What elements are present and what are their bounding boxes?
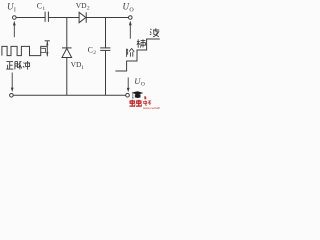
diode VD2 [79, 12, 86, 22]
watermark logo: graduation cap [132, 91, 144, 98]
char 梯 [137, 39, 146, 47]
diode VD1 [62, 48, 72, 58]
watermark red mark right of cap [144, 96, 146, 99]
svg-text:VD: VD [76, 1, 87, 10]
wire VD1 branch upper [66, 18, 68, 48]
svg-text:C: C [88, 46, 93, 55]
svg-text:2: 2 [87, 6, 90, 12]
svg-text:1: 1 [81, 65, 84, 71]
voltage arrow at Ui (up) [13, 21, 16, 37]
node bottom-left terminal circle [10, 94, 14, 98]
voltage arrow bottom-left (down) [11, 73, 14, 93]
voltage arrow bottom-right (down) [127, 78, 130, 93]
svg-text:I: I [14, 8, 16, 14]
watermark text 电子 (red, small) [144, 101, 151, 106]
amplitude label U (rotated) [41, 48, 46, 52]
text 正脉冲 (positive pulse) hand-drawn strokes [6, 61, 29, 70]
char 冲 [23, 61, 29, 70]
svg-text:C: C [37, 2, 42, 11]
staircase output waveform [115, 39, 159, 71]
node bottom-right terminal circle [126, 93, 130, 97]
watermark text 虫虫 (red) [129, 100, 142, 106]
node Ui terminal circle [13, 16, 17, 20]
wire C2 branch lower [105, 51, 107, 96]
wire C2 branch upper [105, 18, 107, 48]
node Uo terminal circle [129, 16, 133, 20]
svg-text:O: O [129, 8, 134, 14]
char 阶 [127, 48, 135, 56]
svg-text:2: 2 [93, 50, 96, 56]
wire top rail segment from C1 to VD2 (junction at x=66.8) [49, 17, 80, 19]
voltage arrow at Uo (up) [129, 21, 132, 39]
svg-text:www.cecb2b.com: www.cecb2b.com [143, 106, 160, 110]
input square wave [2, 46, 47, 55]
wire top rail segment from VD2 to Uo (junction at x=105.5) [86, 17, 128, 19]
wire VD1 branch lower [66, 58, 68, 96]
wire bottom rail [13, 94, 125, 96]
char 脉 [15, 61, 22, 69]
wire top rail segment from Ui to C1 [16, 17, 45, 19]
capacitor C2 [100, 48, 110, 51]
svg-text:1: 1 [42, 6, 45, 12]
char 正 [6, 62, 13, 70]
text 阶梯波 (staircase wave) hand-drawn strokes [127, 28, 160, 57]
amplitude dimension line with ticks [45, 41, 50, 57]
capacitor C1 [45, 12, 48, 22]
char 波 [150, 28, 159, 37]
svg-text:O: O [141, 82, 145, 88]
